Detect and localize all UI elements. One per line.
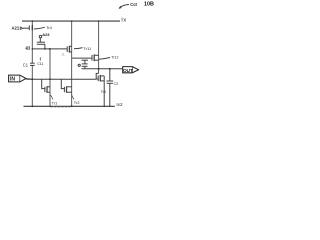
svg-text:Cct: Cct [130, 2, 137, 7]
wire: input gate bus [26, 78, 96, 80]
leader to label Tr11 [74, 48, 83, 49]
junction: rail / Tr12 vertical [98, 20, 100, 22]
A21 input triangle [20, 27, 23, 30]
junction: bottom rail / Tr2 vertical [71, 105, 73, 107]
wire: top supply rail [22, 20, 120, 22]
leader to title reference [119, 5, 129, 9]
wire: OUT line [82, 68, 123, 70]
transistor Tr12 gate bar [91, 55, 93, 61]
capacitor C13 bottom plate [82, 65, 88, 67]
junction: rail / wire A [32, 20, 34, 22]
transistor Tr12 source stub [94, 59, 98, 61]
transistor Tr3 source stub [100, 80, 104, 82]
svg-text:A21: A21 [12, 26, 20, 31]
wire: OUT node down to capacitor C2 [109, 69, 111, 81]
capacitor C11 bottom plate [37, 43, 45, 45]
IN terminal flag [9, 75, 26, 82]
transistor Tr1 gate bar [44, 87, 46, 92]
wire: Tr1 drain vertical [49, 49, 51, 106]
leader to label Tr2 [72, 96, 74, 100]
arrowhead of title leader [119, 6, 122, 8]
transistor Tr2 channel [66, 86, 68, 92]
junction: OUT line / Tr12 vertical [98, 68, 100, 70]
wire: stub between capacitors [84, 60, 86, 64]
transistor Tr2 drain stub [67, 86, 72, 88]
transistor Tr3 gate stub from bus end [96, 78, 98, 80]
capacitor C2 bottom plate [107, 82, 113, 84]
wire: node A21-drain vertical, upper segment [31, 21, 33, 64]
wire: node A21-drain vertical, lower segment below C1 [31, 65, 33, 106]
OUT terminal flag [123, 67, 139, 73]
transistor Tr1 gate drop from bus [42, 79, 45, 88]
transistor Tr2 gate drop from bus [61, 79, 64, 88]
junction: bottom rail / C2 branch [109, 106, 110, 107]
wire: mid gate line to Tr11 gate [32, 48, 67, 50]
capacitor C12 upper plate [82, 59, 89, 61]
svg-text:OUT: OUT [123, 68, 133, 73]
svg-text:C11: C11 [37, 62, 43, 66]
transistor Tr11 channel [68, 46, 70, 53]
transistor Tr2 source stub [67, 91, 72, 93]
capacitor C13 top plate [82, 63, 88, 65]
transistor Tr2 gate bar [63, 87, 65, 92]
leader to label Tr1 [51, 95, 53, 100]
leader to label Tr4 [34, 27, 45, 29]
transistor Tr11 source stub [69, 51, 71, 53]
transistor Tr12 drain stub [94, 54, 98, 56]
svg-text:C2: C2 [114, 82, 119, 86]
svg-text:IN: IN [10, 77, 15, 83]
wire: node A23 stub to capacitor [39, 38, 41, 42]
leader to label Tr12 [99, 58, 110, 60]
transistor Tr1 drain stub [47, 86, 50, 88]
transistor Tr4 gate bar [28, 25, 30, 30]
wire: capacitor C11 stub to mid line [44, 44, 46, 49]
transistor Tr4 channel [31, 25, 33, 31]
transistor Tr11 gate bar [66, 46, 68, 52]
wire: bottom rail [24, 105, 115, 107]
transistor Tr3 channel [99, 75, 101, 82]
junction: bottom rail / Tr3 vertical [104, 106, 105, 107]
junction: OUT line / C2 branch [109, 68, 111, 70]
svg-text:Tr3: Tr3 [101, 90, 106, 94]
faint under-rail dashes [51, 107, 71, 109]
svg-text:Tr1: Tr1 [52, 100, 58, 105]
junction: rail / Tr11 vertical [71, 20, 73, 22]
capacitor C2 top plate [106, 80, 113, 82]
wire: Tr11/Tr2 vertical [71, 21, 73, 107]
transistor Tr12 channel [93, 54, 95, 61]
capacitor C11 top plate [37, 41, 45, 43]
wire: Tr12 vertical from top rail [98, 21, 100, 74]
svg-text:Ix2: Ix2 [116, 102, 123, 107]
wire: capacitor C2 to bottom rail [109, 83, 111, 106]
capacitor C1 top plate [30, 62, 35, 64]
diode-connect mark left of wire at y48 [26, 46, 28, 50]
transistor Tr1 channel [46, 86, 48, 92]
transistor Tr4 gate lead from A21 [23, 27, 29, 29]
node circle beside C13 [78, 64, 80, 66]
wire: IN flag lead to bus [26, 78, 32, 81]
wire: capacitor C13 stub to OUT line [84, 66, 86, 68]
svg-text:Ix: Ix [121, 18, 127, 24]
junction: bottom rail / wire A [31, 105, 33, 107]
label C11 ascender stroke [39, 57, 41, 60]
wire: jog from Tr12 vertical down to gate bus [96, 73, 98, 79]
transistor Tr3 drain stub [100, 75, 104, 77]
junction: bottom rail / Tr1 vertical [49, 106, 50, 107]
svg-text:Tr2: Tr2 [74, 100, 80, 105]
wire: from Tr11 vertical to Tr12 gate [72, 57, 92, 59]
wire: Tr3 drain vertical to bottom rail [103, 76, 105, 106]
svg-text:Tr11: Tr11 [83, 46, 92, 51]
svg-text:Tr12: Tr12 [111, 56, 118, 60]
svg-text:1L: 1L [61, 53, 65, 57]
svg-text:10B: 10B [144, 2, 154, 8]
svg-text:C1: C1 [23, 63, 29, 68]
junction: mid line / wire A [32, 48, 34, 50]
junction: bus / Tr1 vertical [49, 78, 51, 80]
transistor Tr11 drain stub [69, 45, 71, 47]
capacitor C1 bottom plate [30, 64, 35, 66]
junction: mid line / C11 stub [44, 48, 46, 50]
transistor Tr3 gate bar [97, 75, 99, 81]
junction: bus / wire A (IN node) [31, 78, 33, 80]
svg-text:A23: A23 [42, 32, 50, 37]
transistor Tr1 source stub [47, 91, 50, 93]
svg-text:Tr4: Tr4 [46, 25, 53, 30]
node A23 terminal circle [39, 35, 41, 37]
junction: mid line / Tr1 vertical [49, 48, 51, 50]
